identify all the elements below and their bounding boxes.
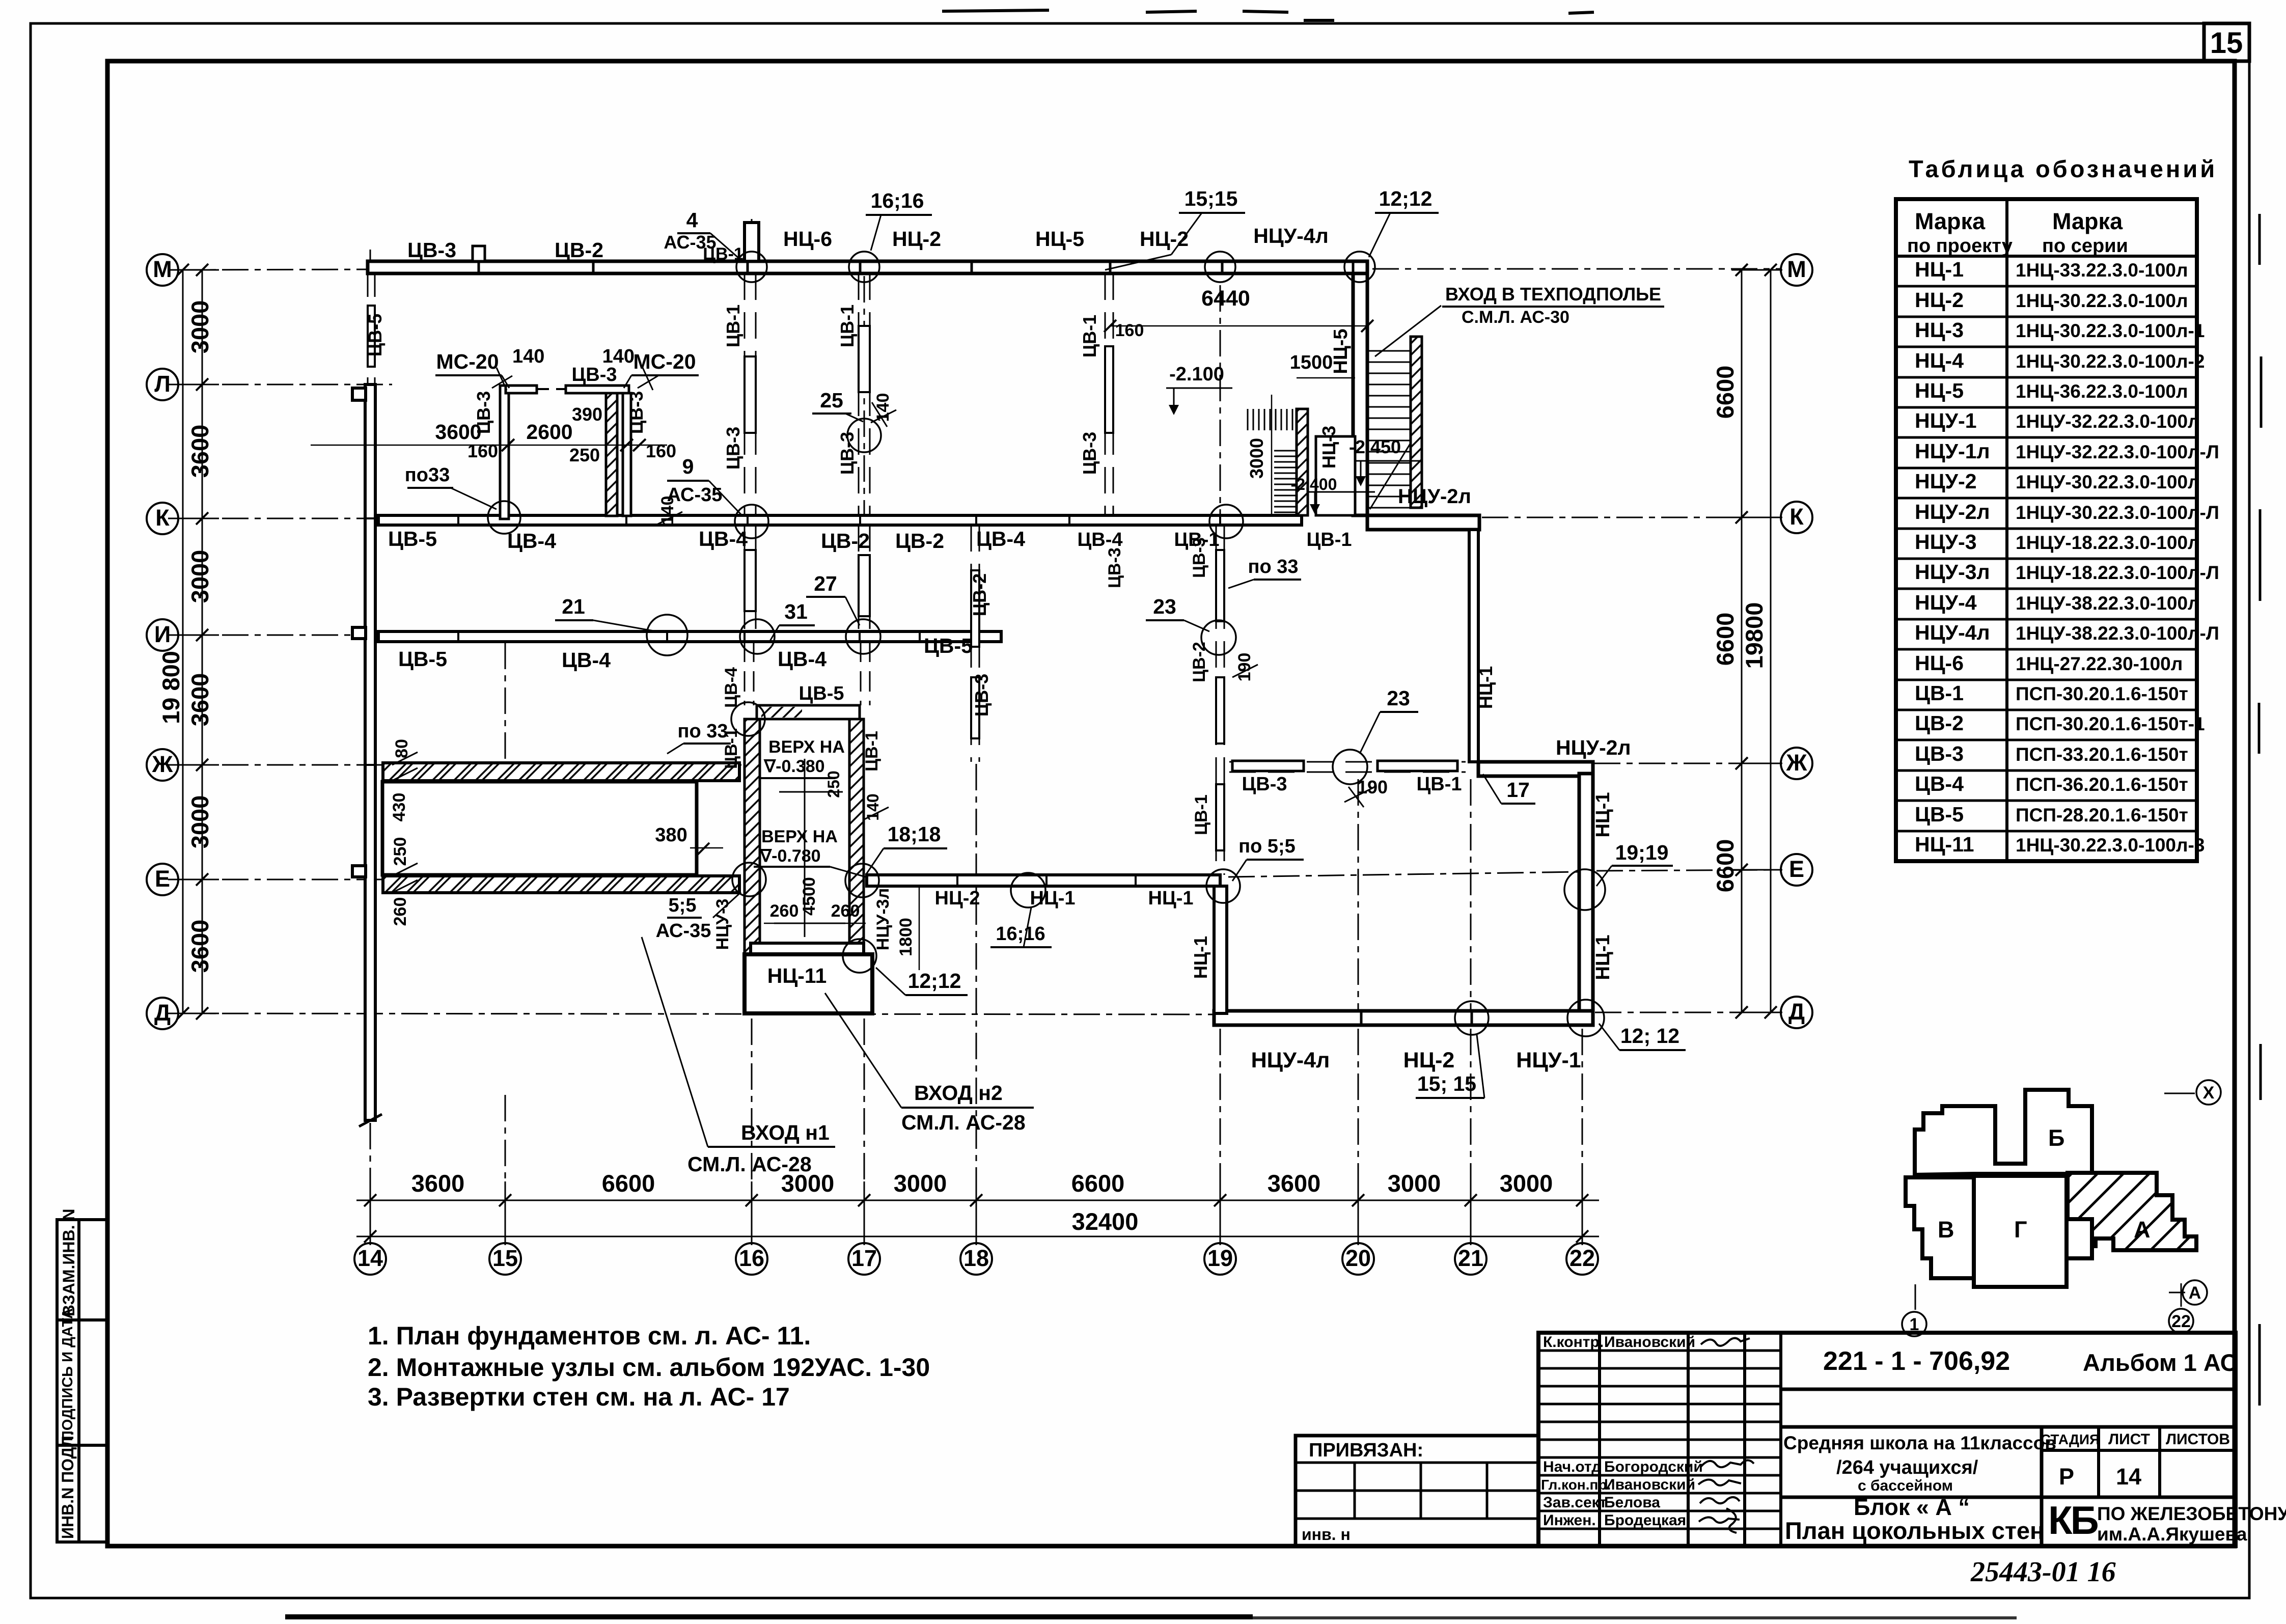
svg-text:16;16: 16;16 xyxy=(996,923,1045,945)
key plan block Г xyxy=(1974,1176,2067,1287)
svg-text:А: А xyxy=(2134,1217,2151,1243)
svg-text:по33: по33 xyxy=(405,464,450,486)
svg-text:СТАДИЯ: СТАДИЯ xyxy=(2041,1432,2100,1447)
node АС-35 4 xyxy=(736,252,767,282)
svg-text:160: 160 xyxy=(646,441,676,461)
svg-text:ПОДПИСЬ И ДАТА: ПОДПИСЬ И ДАТА xyxy=(60,1308,76,1441)
svg-text:КБ: КБ xyxy=(2048,1498,2098,1543)
key plan axis А xyxy=(2169,1292,2185,1293)
svg-text:ЦВ-5: ЦВ-5 xyxy=(1915,803,1964,826)
bottom axis circles 14-22 xyxy=(354,1243,1598,1275)
svg-text:31: 31 xyxy=(784,600,808,623)
svg-text:ЦВ-3: ЦВ-3 xyxy=(723,427,743,470)
hatched stair outer wall xyxy=(1411,337,1422,508)
svg-text:ПО ЖЕЛЕЗОБЕТОНУ: ПО ЖЕЛЕЗОБЕТОНУ xyxy=(2097,1503,2286,1524)
svg-text:6600: 6600 xyxy=(1712,613,1739,666)
svg-text:СМ.Л. АС-28: СМ.Л. АС-28 xyxy=(687,1152,812,1176)
svg-text:Ивановский: Ивановский xyxy=(1604,1334,1695,1351)
svg-text:14: 14 xyxy=(357,1245,383,1271)
node 5;5 xyxy=(732,863,766,896)
svg-text:ЦВ-3: ЦВ-3 xyxy=(1079,432,1100,475)
svg-text:ЦВ-1: ЦВ-1 xyxy=(1417,774,1462,795)
svg-text:НЦУ-4л: НЦУ-4л xyxy=(1251,1048,1330,1072)
svg-text:ЦВ-5: ЦВ-5 xyxy=(398,647,447,671)
scan artifact bottom strip xyxy=(285,1614,1253,1619)
svg-text:19;19: 19;19 xyxy=(1615,841,1669,864)
svg-text:НЦ-1: НЦ-1 xyxy=(1148,888,1194,909)
svg-text:18;18: 18;18 xyxy=(888,822,941,846)
svg-text:ЦВ-4: ЦВ-4 xyxy=(1078,529,1123,550)
hatched pit wall right xyxy=(849,719,864,943)
svg-text:НЦ-5: НЦ-5 xyxy=(1035,227,1084,251)
svg-text:ЦВ-4: ЦВ-4 xyxy=(778,647,827,671)
svg-text:ЦВ-3: ЦВ-3 xyxy=(1105,547,1124,588)
inner stair hatch marks xyxy=(1274,451,1297,512)
node 16;16 Е xyxy=(1011,873,1045,907)
svg-text:ЦВ-2: ЦВ-2 xyxy=(555,238,603,262)
svg-text:ЦВ-4: ЦВ-4 xyxy=(699,527,748,550)
svg-text:НЦУ-2л: НЦУ-2л xyxy=(1398,485,1471,508)
svg-text:6440: 6440 xyxy=(1201,286,1250,311)
svg-text:1НЦ-30.22.3.0-100л-3: 1НЦ-30.22.3.0-100л-3 xyxy=(2016,835,2205,856)
svg-text:3000: 3000 xyxy=(1388,1170,1441,1197)
svg-text:6600: 6600 xyxy=(1712,839,1739,893)
title block xyxy=(1538,1333,2236,1546)
node по5;5 xyxy=(1206,869,1240,903)
svg-text:1НЦУ-32.22.3.0-100л: 1НЦУ-32.22.3.0-100л xyxy=(2016,411,2200,432)
svg-text:ЦВ-3: ЦВ-3 xyxy=(572,364,617,386)
svg-text:6600: 6600 xyxy=(1071,1170,1125,1197)
wall axis М НЦ panels y513-537 xyxy=(368,261,1367,273)
wall stub above М at axis 16 xyxy=(745,223,759,261)
svg-text:по проекту: по проекту xyxy=(1907,235,2013,257)
right axis circles М К Ж Е Д xyxy=(1781,254,1812,1028)
svg-text:НЦ-2: НЦ-2 xyxy=(1403,1048,1455,1072)
wall ЦВ-3 right of МС-20 room xyxy=(623,393,631,516)
svg-text:инв. н: инв. н xyxy=(1302,1525,1351,1544)
svg-text:160: 160 xyxy=(467,441,498,461)
svg-text:С.М.Л. АС-30: С.М.Л. АС-30 xyxy=(1462,308,1569,327)
svg-text:12;12: 12;12 xyxy=(1379,187,1433,210)
svg-text:К.контр.: К.контр. xyxy=(1543,1334,1604,1351)
svg-text:2600: 2600 xyxy=(526,420,572,444)
svg-text:Ж: Ж xyxy=(1786,750,1807,776)
left wall axis 14 Л to below Е xyxy=(365,384,375,1120)
node 12;12 НЦ-11 xyxy=(843,939,876,973)
bottom dimension chains xyxy=(356,1181,1599,1245)
wall ЦВ-3 axis17 И-pit xyxy=(861,642,870,705)
column mark at И xyxy=(352,627,366,639)
svg-text:Нач.отд: Нач.отд xyxy=(1543,1458,1601,1475)
node 12;12 corner xyxy=(1567,1000,1604,1036)
svg-text:16: 16 xyxy=(739,1245,764,1271)
svg-text:1НЦУ-30.22.3.0-100л-Л: 1НЦУ-30.22.3.0-100л-Л xyxy=(2016,502,2219,523)
tick at bottom of left wall xyxy=(359,1114,382,1126)
svg-text:Марка: Марка xyxy=(1915,208,1986,234)
svg-text:140: 140 xyxy=(873,393,893,422)
svg-text:Х: Х xyxy=(2203,1083,2215,1103)
svg-text:380: 380 xyxy=(655,824,687,846)
key plan axis 1 xyxy=(1915,1284,1916,1310)
svg-text:1800: 1800 xyxy=(896,918,916,956)
svg-text:ВХОД н2: ВХОД н2 xyxy=(914,1081,1003,1105)
svg-text:НЦУ-4л: НЦУ-4л xyxy=(1253,224,1329,247)
svg-text:ЦВ-3: ЦВ-3 xyxy=(837,432,858,475)
node по33 pit xyxy=(731,702,765,736)
stair treads вход в техподполье xyxy=(1367,351,1411,509)
svg-text:М: М xyxy=(1787,256,1806,282)
svg-text:Марка: Марка xyxy=(2052,208,2123,234)
svg-text:ВЕРХ НА: ВЕРХ НА xyxy=(768,737,845,757)
svg-text:Инжен.: Инжен. xyxy=(1543,1512,1596,1529)
key plan block Б outline xyxy=(1915,1090,2092,1175)
svg-text:МС-20: МС-20 xyxy=(436,350,499,373)
node 25 xyxy=(847,419,881,452)
svg-text:НЦ-2: НЦ-2 xyxy=(1140,227,1189,251)
svg-text:ЦВ-2: ЦВ-2 xyxy=(969,573,990,616)
svg-text:390: 390 xyxy=(572,404,602,425)
pit dim lines xyxy=(774,759,845,937)
svg-text:Ивановский: Ивановский xyxy=(1604,1476,1695,1493)
svg-text:НЦУ-3: НЦУ-3 xyxy=(713,899,732,950)
svg-text:ЦВ-1: ЦВ-1 xyxy=(837,305,858,347)
svg-text:Р: Р xyxy=(2059,1464,2074,1490)
key plan block А hatched xyxy=(2068,1173,2196,1250)
wall stub above М at x940 xyxy=(473,246,485,261)
svg-text:15: 15 xyxy=(492,1245,518,1271)
svg-text:260: 260 xyxy=(831,901,860,921)
svg-text:ЦВ-4: ЦВ-4 xyxy=(976,527,1025,550)
svg-text:190: 190 xyxy=(1357,777,1388,797)
svg-text:3600: 3600 xyxy=(186,673,213,727)
svg-text:ВХОД В ТЕХПОДПОЛЬЕ: ВХОД В ТЕХПОДПОЛЬЕ xyxy=(1445,284,1661,305)
wall ЦВ-2 ЦВ-1 axis19 К-Е xyxy=(1216,525,1224,875)
svg-text:1. План фундаментов см. л.: 1. План фундаментов см. л. АС- 11. xyxy=(368,1322,811,1350)
svg-text:32400: 32400 xyxy=(1072,1208,1139,1235)
svg-text:1НЦУ-18.22.3.0-100л: 1НЦУ-18.22.3.0-100л xyxy=(2016,532,2200,553)
svg-text:Блок « А “: Блок « А “ xyxy=(1854,1494,1970,1520)
svg-text:19 800: 19 800 xyxy=(157,651,184,724)
column mark at Л xyxy=(352,388,366,400)
svg-text:1НЦ-30.22.3.0-100л-1: 1НЦ-30.22.3.0-100л-1 xyxy=(2016,320,2205,341)
svg-text:1500: 1500 xyxy=(1290,352,1333,373)
svg-text:Белова: Белова xyxy=(1604,1494,1660,1511)
svg-text:ВЕРХ НА: ВЕРХ НА xyxy=(761,827,838,846)
wall НЦУ-2л along Ж right xyxy=(1478,762,1593,776)
svg-text:21: 21 xyxy=(1458,1245,1483,1271)
svg-text:1НЦУ-30.22.3.0-100л: 1НЦУ-30.22.3.0-100л xyxy=(2016,472,2200,492)
svg-text:14: 14 xyxy=(2116,1464,2141,1490)
svg-text:27: 27 xyxy=(814,572,837,595)
wall ЦВ-2 ЦВ-3 axis17 К-И xyxy=(859,525,870,631)
svg-text:К: К xyxy=(155,505,170,531)
svg-text:3600: 3600 xyxy=(186,920,213,973)
svg-text:160: 160 xyxy=(1115,321,1144,340)
svg-text:ЦВ-3: ЦВ-3 xyxy=(626,391,647,434)
wall ЦВ-1 ЦВ-3 axis17 М-К xyxy=(859,273,870,515)
wall axis И ЦВ panels y1240-1260 xyxy=(378,631,1001,642)
svg-text:ЦВ-2: ЦВ-2 xyxy=(821,529,870,553)
detail node circles xyxy=(488,252,1605,1036)
panel ЦВ-1 segment on Ж xyxy=(1378,761,1457,771)
svg-text:ЦВ-1: ЦВ-1 xyxy=(1915,681,1964,705)
svg-text:6600: 6600 xyxy=(602,1170,655,1197)
svg-text:НЦ-1: НЦ-1 xyxy=(1475,666,1496,709)
svg-text:260: 260 xyxy=(770,901,799,921)
svg-text:НЦ-2: НЦ-2 xyxy=(935,888,980,909)
svg-text:ЦВ-3: ЦВ-3 xyxy=(971,674,992,717)
svg-text:НЦ-3: НЦ-3 xyxy=(1915,318,1964,342)
svg-text:ЦВ-4: ЦВ-4 xyxy=(562,648,611,672)
svg-text:-2.400: -2.400 xyxy=(1291,475,1337,493)
svg-text:СМ.Л. АС-28: СМ.Л. АС-28 xyxy=(901,1111,1026,1134)
svg-text:им.А.А.Якушева: им.А.А.Якушева xyxy=(2097,1524,2247,1545)
svg-text:ЦВ-1: ЦВ-1 xyxy=(1079,315,1100,357)
node 21 xyxy=(647,615,687,655)
svg-text:12;12: 12;12 xyxy=(908,969,961,993)
svg-text:ЦВ-1: ЦВ-1 xyxy=(723,305,743,347)
key plan block В xyxy=(1906,1177,1974,1278)
svg-text:9: 9 xyxy=(682,455,694,478)
svg-text:НЦ-5: НЦ-5 xyxy=(1915,379,1964,402)
svg-text:Е: Е xyxy=(155,866,170,892)
svg-text:-2.100: -2.100 xyxy=(1169,364,1224,385)
node 12;12 НЦУ-4л xyxy=(1344,252,1375,282)
wall ЦВ-3 top right segment xyxy=(566,386,629,393)
svg-text:3. Развертки стен см. на л.: 3. Развертки стен см. на л. АС- 17 xyxy=(368,1383,790,1411)
svg-text:Д: Д xyxy=(1788,999,1805,1025)
wall НЦ-2 НЦ-1 along Е to corner xyxy=(867,875,1220,886)
wall ЦВ-5 pit top xyxy=(757,705,860,719)
svg-text:22: 22 xyxy=(1569,1245,1595,1271)
hatched wall МС-20 room xyxy=(606,393,617,516)
svg-text:НЦ-2: НЦ-2 xyxy=(1915,288,1964,312)
svg-text:17: 17 xyxy=(851,1245,877,1271)
svg-text:НЦ-1: НЦ-1 xyxy=(1190,936,1211,979)
scan artifacts top edge xyxy=(942,10,1594,20)
svg-text:Альбом 1 АС: Альбом 1 АС xyxy=(2083,1349,2238,1376)
svg-text:ЦВ-2: ЦВ-2 xyxy=(1190,642,1209,682)
svg-text:НЦУ-4л: НЦУ-4л xyxy=(1915,621,1990,644)
svg-text:НЦУ-1: НЦУ-1 xyxy=(1915,409,1977,432)
svg-text:АС-35: АС-35 xyxy=(656,920,711,942)
wall axis К ЦВ panels y1012-1031 xyxy=(378,515,1302,525)
svg-text:ЦВ-4: ЦВ-4 xyxy=(722,667,741,708)
svg-text:ЦВ-3: ЦВ-3 xyxy=(1915,742,1964,765)
key plan axis 22 xyxy=(2181,1283,2182,1307)
key plan appendix rect xyxy=(2067,1219,2092,1258)
svg-text:ЦВ-1: ЦВ-1 xyxy=(703,244,743,264)
svg-text:Средняя школа на 11классов: Средняя школа на 11классов xyxy=(1783,1433,2056,1453)
right dimension chains xyxy=(1731,270,1782,1012)
svg-text:1НЦ-33.22.3.0-100л: 1НЦ-33.22.3.0-100л xyxy=(2016,260,2188,281)
svg-text:ПСП-36.20.1.6-150т: ПСП-36.20.1.6-150т xyxy=(2016,774,2188,795)
svg-text:250: 250 xyxy=(391,837,410,866)
wall ЦВ-1 ЦВ-3 х2178 М-К xyxy=(1105,273,1113,515)
panel ЦВ-3 segment on Ж xyxy=(1232,761,1304,771)
svg-text:1НЦ-30.22.3.0-100л: 1НЦ-30.22.3.0-100л xyxy=(2016,290,2188,311)
svg-text:Таблица обозначений: Таблица обозначений xyxy=(1909,155,2217,182)
svg-text:Зав.сект: Зав.сект xyxy=(1543,1494,1607,1511)
wall НЦУ-3 НЦУ-3л pit bottom xyxy=(751,943,864,954)
svg-text:20: 20 xyxy=(1345,1245,1371,1271)
node 9 АС-35 xyxy=(735,505,768,538)
svg-text:НЦУ-1: НЦУ-1 xyxy=(1516,1048,1581,1072)
svg-text:ЦВ-1: ЦВ-1 xyxy=(862,731,882,772)
svg-text:НЦ-1: НЦ-1 xyxy=(1592,935,1614,980)
svg-text:/264 учащихся/: /264 учащихся/ xyxy=(1836,1457,1978,1478)
svg-text:ЛИСТОВ: ЛИСТОВ xyxy=(2166,1431,2230,1448)
svg-text:3000: 3000 xyxy=(186,550,213,603)
privyazan box xyxy=(1296,1436,1538,1546)
svg-text:Г: Г xyxy=(2014,1217,2027,1243)
svg-text:19800: 19800 xyxy=(1741,602,1768,669)
svg-text:Бродецкая: Бродецкая xyxy=(1604,1512,1686,1529)
svg-text:НЦ-2: НЦ-2 xyxy=(892,227,941,251)
inner stair top marks xyxy=(1248,409,1292,430)
svg-text:ЦВ-5: ЦВ-5 xyxy=(799,683,844,704)
wall ЦВ-5 axis14 М-Л dashed xyxy=(368,273,375,384)
wall ЦВ-3 left of МС-20 room xyxy=(500,386,509,519)
svg-text:17: 17 xyxy=(1506,778,1530,802)
node 16;16 М xyxy=(849,252,879,282)
svg-text:ЦВ-4: ЦВ-4 xyxy=(1915,772,1964,795)
designation table Таблица обозначений xyxy=(1896,199,2197,861)
svg-text:6600: 6600 xyxy=(1712,366,1739,419)
svg-text:Е: Е xyxy=(1789,856,1804,882)
svg-text:18: 18 xyxy=(963,1245,989,1271)
svg-text:НЦ-11: НЦ-11 xyxy=(767,964,827,987)
left margin stamp boxes xyxy=(57,1220,107,1542)
wall НЦ-1 х2894 stairs to Ж xyxy=(1469,530,1478,762)
wall НЦ-1 axis 22 xyxy=(1579,774,1593,1012)
axis grid dash-dot lines xyxy=(177,219,1781,1243)
svg-text:ЦВ-3: ЦВ-3 xyxy=(1190,537,1209,578)
svg-text:Богородский: Богородский xyxy=(1604,1458,1703,1475)
svg-text:НЦ-6: НЦ-6 xyxy=(783,227,832,251)
svg-text:ИНВ.N ПОДЛ.: ИНВ.N ПОДЛ. xyxy=(59,1431,77,1539)
svg-text:В: В xyxy=(1938,1217,1954,1243)
svg-text:ЦВ-1: ЦВ-1 xyxy=(1307,529,1352,550)
svg-text:ПСП-28.20.1.6-150т: ПСП-28.20.1.6-150т xyxy=(2016,805,2188,825)
hatched corridor wall below Ж xyxy=(383,763,739,781)
svg-text:3600: 3600 xyxy=(1268,1170,1321,1197)
svg-text:23: 23 xyxy=(1153,595,1176,618)
svg-text:1НЦ-36.22.3.0-100л: 1НЦ-36.22.3.0-100л xyxy=(2016,381,2188,402)
svg-text:4: 4 xyxy=(686,208,698,232)
svg-text:с бассейном: с бассейном xyxy=(1858,1477,1953,1494)
node 23 19 xyxy=(1201,620,1236,655)
node 18;18 xyxy=(845,864,879,897)
svg-text:19: 19 xyxy=(1207,1245,1233,1271)
svg-text:А: А xyxy=(2189,1283,2201,1303)
svg-text:260: 260 xyxy=(391,897,410,926)
wall НЦУ-4л НЦ-2 НЦУ-1 along Д xyxy=(1214,1011,1593,1025)
node 19;19 xyxy=(1564,869,1605,910)
svg-text:140: 140 xyxy=(658,496,677,525)
svg-text:по 33: по 33 xyxy=(678,721,728,742)
svg-text:ЦВ-5: ЦВ-5 xyxy=(365,314,385,356)
svg-text:НЦ-1: НЦ-1 xyxy=(1030,888,1076,909)
svg-text:22: 22 xyxy=(2171,1312,2191,1331)
hatched wall inner stair xyxy=(1297,409,1308,515)
svg-text:-2.450: -2.450 xyxy=(1349,436,1401,457)
svg-text:2. Монтажные узлы см. альб: 2. Монтажные узлы см. альбом 192УАС. 1-3… xyxy=(368,1353,930,1382)
svg-text:ЦВ-3: ЦВ-3 xyxy=(407,238,456,262)
wall ЦВ-2 ЦВ-3 axis18 К-Ж xyxy=(971,525,979,762)
svg-text:НЦУ-1л: НЦУ-1л xyxy=(1915,439,1990,463)
room НЦ-11 вход xyxy=(745,954,872,1013)
node 15;15 Д xyxy=(1455,1001,1489,1035)
svg-text:3600: 3600 xyxy=(186,425,213,478)
svg-text:3600: 3600 xyxy=(411,1170,465,1197)
svg-text:К: К xyxy=(1789,504,1804,530)
svg-text:250: 250 xyxy=(569,445,600,465)
svg-text:16;16: 16;16 xyxy=(871,189,924,212)
svg-text:по серии: по серии xyxy=(2042,235,2128,257)
wall ЦВ-4 axis16 И-pit xyxy=(745,642,754,705)
wall МС-20 top left segment xyxy=(506,386,537,393)
svg-text:ВЗАМ.ИНВ. N: ВЗАМ.ИНВ. N xyxy=(60,1209,78,1317)
svg-text:4500: 4500 xyxy=(800,877,819,916)
svg-text:3000: 3000 xyxy=(1246,438,1267,479)
svg-text:НЦ-4: НЦ-4 xyxy=(1915,349,1964,372)
panel pieces on dashed walls xyxy=(368,306,1224,850)
node по33 К19 xyxy=(1209,505,1243,538)
svg-text:Б: Б xyxy=(2048,1125,2064,1151)
sheet number box 15 xyxy=(2204,23,2249,61)
svg-text:НЦ-6: НЦ-6 xyxy=(1915,651,1964,675)
svg-text:ЦВ-2: ЦВ-2 xyxy=(1915,711,1964,735)
svg-text:НЦУ-4: НЦУ-4 xyxy=(1915,591,1977,614)
svg-text:НЦУ-2: НЦУ-2 xyxy=(1915,470,1977,493)
svg-text:80: 80 xyxy=(392,739,411,758)
svg-text:по 5;5: по 5;5 xyxy=(1238,836,1296,857)
svg-text:1НЦУ-38.22.3.0-100л-Л: 1НЦУ-38.22.3.0-100л-Л xyxy=(2016,623,2219,644)
corridor room outline xyxy=(382,782,697,875)
svg-text:221 - 1 - 706,92: 221 - 1 - 706,92 xyxy=(1823,1346,2010,1376)
node 15;15 М xyxy=(1205,252,1235,282)
landing НЦ-3 box xyxy=(1316,436,1355,515)
svg-text:ЦВ-4: ЦВ-4 xyxy=(507,529,556,553)
wall ЦВ-2 axis16 К-И xyxy=(745,525,756,631)
svg-text:Гл.кон.пр.: Гл.кон.пр. xyxy=(1541,1477,1611,1493)
svg-text:3000: 3000 xyxy=(186,795,213,849)
svg-text:1НЦ-30.22.3.0-100л-2: 1НЦ-30.22.3.0-100л-2 xyxy=(2016,351,2205,372)
svg-text:1НЦУ-32.22.3.0-100л-Л: 1НЦУ-32.22.3.0-100л-Л xyxy=(2016,442,2219,462)
svg-text:ЦВ-1: ЦВ-1 xyxy=(1192,794,1211,835)
svg-text:∇-0.780: ∇-0.780 xyxy=(759,846,820,866)
svg-text:15; 15: 15; 15 xyxy=(1417,1072,1476,1095)
svg-text:∇-0.380: ∇-0.380 xyxy=(763,757,824,776)
svg-text:ПРИВЯЗАН:: ПРИВЯЗАН: xyxy=(1309,1440,1423,1461)
svg-text:НЦ-1: НЦ-1 xyxy=(1592,792,1614,838)
svg-text:23: 23 xyxy=(1387,686,1410,710)
svg-text:21: 21 xyxy=(562,595,585,618)
dashed wall ЦВ-3 ЦВ-1 along Ж xyxy=(1229,762,1466,772)
svg-text:3000: 3000 xyxy=(894,1170,947,1197)
wall ЦВ-1 ЦВ-3 axis16 М-К xyxy=(745,273,756,515)
svg-text:25443-01 16: 25443-01 16 xyxy=(1970,1556,2116,1588)
svg-text:25: 25 xyxy=(820,389,843,412)
svg-text:ЛИСТ: ЛИСТ xyxy=(2108,1431,2150,1448)
svg-text:НЦ-5: НЦ-5 xyxy=(1330,329,1352,374)
svg-text:ПСП-30.20.1.6-150т-1: ПСП-30.20.1.6-150т-1 xyxy=(2016,713,2205,734)
svg-text:140: 140 xyxy=(512,346,544,367)
svg-text:ЦВ-5: ЦВ-5 xyxy=(388,527,437,550)
hatched corridor wall at Е xyxy=(383,876,739,893)
svg-text:15: 15 xyxy=(2210,26,2243,60)
